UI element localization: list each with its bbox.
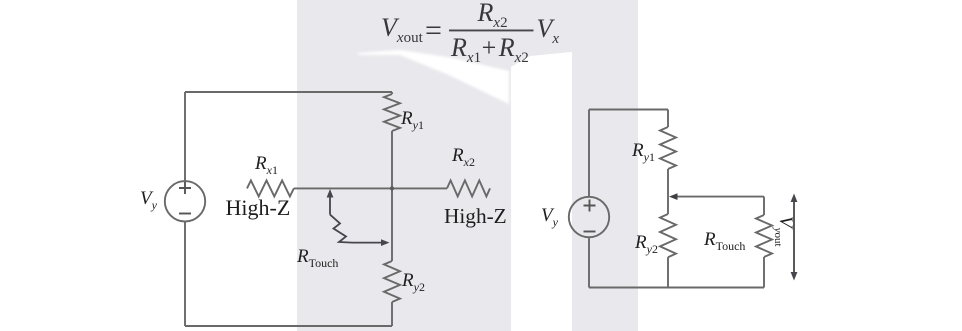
- wire: right branch lead top: [667, 110, 669, 128]
- resistor R_y2 (left circuit): [384, 261, 400, 302]
- V_yout double arrow: [791, 194, 798, 281]
- resistor R_x1: [247, 180, 294, 196]
- label V_y (left): [140, 189, 157, 208]
- label R_x2: [452, 146, 475, 165]
- label V_y (right): [541, 206, 558, 225]
- resistor R_Touch (right circuit): [756, 215, 772, 257]
- wire: right middle wire with left arrowhead: [676, 196, 764, 198]
- wire: right branch lead bottom: [667, 257, 669, 287]
- label R_x1: [255, 154, 278, 173]
- wire: right branch middle: [667, 169, 669, 214]
- resistor R_y1 (left circuit): [384, 94, 400, 131]
- label High-Z (left): [226, 197, 291, 219]
- label R_y2 (left): [402, 271, 425, 290]
- formula denominator R_x1 + R_x2: [451, 35, 529, 61]
- wire: branch lead bottom: [391, 302, 393, 326]
- wire: R_Touch branch lead bottom: [763, 257, 765, 288]
- voltage source V_y (right): [569, 197, 609, 237]
- label High-Z (right): [444, 206, 507, 227]
- gray band B: [572, 0, 638, 331]
- resistor R_Touch (left, diagonal zigzag): [330, 215, 352, 243]
- resistor R_y1 (right circuit): [660, 127, 676, 169]
- label R_Touch (right): [704, 230, 745, 249]
- wire: left circuit left wire lower: [184, 222, 186, 327]
- label R_y1 (left): [401, 109, 424, 128]
- touch wiper arrow right: [352, 239, 390, 246]
- wire: right circuit top wire: [589, 109, 668, 111]
- label R_y1 (right): [632, 141, 655, 160]
- junction dot: [390, 186, 394, 190]
- wire: R_Touch branch lead top: [763, 197, 765, 215]
- wire: left circuit top wire: [185, 91, 392, 93]
- wire: left circuit bottom wire: [185, 325, 392, 327]
- formula fraction bar: [449, 30, 534, 32]
- white wedge: [358, 50, 509, 104]
- formula V_x: [537, 16, 560, 42]
- formula numerator R_x2: [478, 0, 508, 26]
- formula V_xout: [381, 15, 423, 41]
- wire: left circuit left wire upper: [184, 92, 186, 181]
- wire: middle wire: [294, 187, 447, 189]
- wire: right circuit left wire upper: [588, 110, 590, 198]
- wire: branch middle: [391, 131, 393, 261]
- voltage source V_y (left): [165, 181, 205, 221]
- wire: right circuit bottom wire: [589, 287, 764, 289]
- wire: branch lead top: [391, 92, 393, 94]
- gray band A: [297, 0, 511, 331]
- wire: right circuit left wire lower: [588, 237, 590, 288]
- formula equals: [425, 16, 442, 46]
- gray band top strip: [509, 0, 572, 68]
- touch wiper arrow up: [327, 189, 334, 215]
- label V_yout (rotated): [776, 216, 795, 247]
- label R_y2 (right): [635, 233, 658, 252]
- label R_Touch (left): [297, 247, 338, 266]
- resistor R_x2: [447, 180, 490, 196]
- resistor R_y2 (right circuit): [660, 214, 676, 257]
